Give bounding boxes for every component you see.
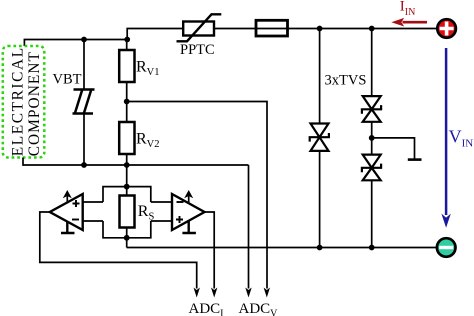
- wire R_S top loop: [103, 187, 151, 202]
- op-amp U2 power arrow: [188, 193, 190, 203]
- fuse F1: [256, 20, 288, 36]
- resistor R_V2: [119, 122, 134, 154]
- wire electrical component bottom to lower rail: [23, 158, 249, 166]
- wire op-amp U2 output to ADC arrow: [205, 212, 215, 289]
- junction dot R_V1 top node: [124, 37, 130, 43]
- wire D2 bottom to D3 top: [371, 122, 373, 155]
- plus terminal: [437, 19, 456, 38]
- arrow to ADC_I (from U1): [194, 288, 200, 298]
- junction dot left TVS bottom: [317, 245, 323, 251]
- wire divider tap to ADC_V arrow: [127, 102, 267, 289]
- wire left TVS bottom lead: [319, 151, 321, 248]
- junction dot R_S bottom node: [124, 235, 130, 241]
- op-amp U1 ground: [61, 222, 75, 233]
- I_IN current arrow (red): [403, 21, 428, 24]
- junction dot VBT bottom: [81, 162, 87, 168]
- V_IN arrowhead: [441, 214, 450, 228]
- PPTC fuse RT1: [177, 14, 222, 41]
- svg-text:3xTVS: 3xTVS: [325, 73, 367, 89]
- wire left op-amp plus input: [83, 201, 103, 203]
- wire left TVS top lead: [319, 29, 321, 124]
- junction dot TVS midpoint: [369, 135, 375, 141]
- wire right op-amp minus input: [151, 201, 172, 203]
- op-amp U2 ground: [182, 221, 196, 233]
- minus terminal: [437, 238, 456, 257]
- wire R_S column bottom: [126, 228, 128, 248]
- junction dot VBT top: [81, 37, 87, 43]
- gas discharge tube VBT symbol: [73, 90, 95, 114]
- op-amp U1 left: [50, 194, 83, 230]
- wire VBT top lead: [83, 40, 85, 90]
- wire op-amp U1 output loop to ADC_I arrow: [40, 212, 197, 289]
- wire R_S bottom loop: [103, 221, 151, 238]
- ground symbol at TVS midpoint: [408, 158, 422, 161]
- svg-text:VBT: VBT: [53, 72, 82, 88]
- wire R_V1 bottom to R_V2 top: [126, 82, 128, 122]
- op-amp U1 power arrow: [66, 193, 68, 204]
- wire TVS midpoint to ground: [372, 138, 415, 159]
- arrow to ADC_V (from R_V2 bottom): [245, 288, 251, 298]
- wire top rail from R_V1 branch corner to plus terminal: [127, 29, 436, 40]
- wire left op-amp minus input: [83, 220, 103, 222]
- wire VBT bottom lead: [83, 114, 85, 166]
- junction dot R_V2 bottom node: [124, 162, 130, 168]
- resistor R_V1: [119, 50, 134, 82]
- TVS diode D1 bidirectional: [310, 124, 329, 151]
- op-amp U2 right: [172, 194, 205, 230]
- TVS diode D2 bidirectional: [362, 96, 381, 122]
- svg-text:ELECTRICAL: ELECTRICAL: [9, 46, 26, 156]
- svg-text:COMPONENT: COMPONENT: [26, 51, 43, 156]
- wire R_V1 top lead: [126, 40, 128, 51]
- wire right TVS column top lead: [371, 29, 373, 97]
- wire R_S column top: [126, 165, 128, 196]
- wire bottom minus rail: [127, 247, 436, 249]
- arrow to ADC_V (from divider tap): [264, 288, 270, 298]
- arrow to ADC_I (from U2): [211, 288, 217, 298]
- svg-text:PPTC: PPTC: [180, 42, 215, 58]
- shunt resistor R_S: [120, 196, 135, 228]
- junction dot right TVS top: [369, 26, 375, 32]
- wire right op-amp plus input: [151, 220, 172, 222]
- wire right TVS column bottom lead: [371, 180, 373, 247]
- junction dot right TVS bottom: [369, 245, 375, 251]
- wire R_V2 bottom lead: [126, 154, 128, 165]
- junction dot R_S top node: [124, 184, 130, 190]
- junction dot divider tap: [124, 99, 130, 105]
- junction dot left TVS top: [317, 26, 323, 32]
- TVS diode D3 bidirectional: [362, 155, 381, 181]
- wire upper-left branch from electrical component to R_V1 node: [24, 40, 128, 47]
- electrical component dashed green box: [3, 46, 45, 158]
- svg-text:ADCI: ADCI: [189, 301, 224, 316]
- V_IN sense line (blue): [445, 48, 448, 215]
- wire lower divider rail corner down to ADC_V arrow: [248, 165, 250, 289]
